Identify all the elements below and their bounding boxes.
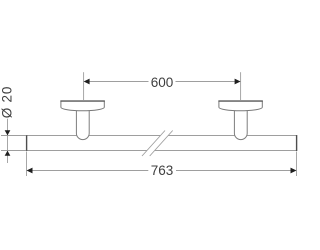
svg-text:Ø 20: Ø 20 bbox=[0, 86, 15, 118]
svg-text:600: 600 bbox=[151, 75, 174, 90]
svg-text:763: 763 bbox=[151, 163, 174, 178]
